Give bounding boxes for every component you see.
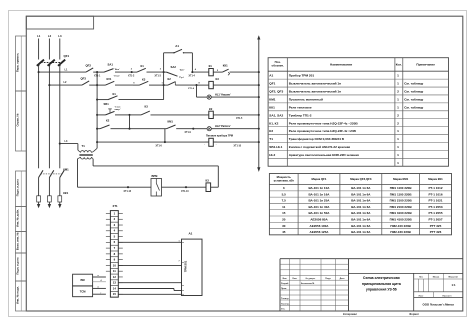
margin stamp box "Подп. и дата" <box>16 171 27 207</box>
svg-text:ХТ1-9: ХТ1-9 <box>185 132 192 134</box>
svg-text:А1: А1 <box>175 44 179 48</box>
relay contact K1 (self-hold) <box>97 99 108 101</box>
relay contact K2 (NC, row2) <box>164 84 168 86</box>
svg-text:2: 2 <box>397 90 399 94</box>
contactor KM1 main contacts <box>39 170 43 177</box>
svg-text:К3: К3 <box>216 77 220 81</box>
svg-text:1: 1 <box>397 145 399 149</box>
wire T1 primary right to rail <box>91 151 93 154</box>
svg-text:БРМ: БРМ <box>152 174 159 178</box>
svg-text:SA1: SA1 <box>108 62 114 66</box>
wire link row5-row6 <box>164 129 166 142</box>
svg-text:Пускатель магнитный: Пускатель магнитный <box>289 98 323 102</box>
wire row1 to bus <box>230 71 259 73</box>
svg-text:1: 1 <box>397 74 399 78</box>
svg-text:К3: К3 <box>206 178 210 182</box>
svg-text:Инв. № подл.: Инв. № подл. <box>15 286 19 304</box>
svg-text:15: 15 <box>282 211 286 215</box>
wire HL1 branch <box>196 85 198 97</box>
svg-text:Т.контр.: Т.контр. <box>281 298 289 300</box>
svg-text:'Руч': 'Руч' <box>179 77 184 79</box>
svg-text:РТ-1 2055: РТ-1 2055 <box>428 211 442 215</box>
margin stamp box "Взам. инв. №" <box>16 232 27 254</box>
node 3 / XT1-3 <box>163 71 165 73</box>
svg-text:КV1: КV1 <box>107 77 112 81</box>
svg-text:ВА-101 1п 6А: ВА-101 1п 6А <box>351 199 371 203</box>
wire XT1-14 to A1 <box>118 287 174 289</box>
svg-text:'Авт': 'Авт' <box>180 69 185 72</box>
wire K3 coil return <box>211 186 219 188</box>
parts list table <box>268 58 448 167</box>
svg-text:SA1, SA2: SA1, SA2 <box>269 113 283 117</box>
wire <box>97 71 104 73</box>
sensor wires <box>93 276 106 278</box>
node rail row6 / XT1-6 <box>96 141 98 143</box>
node L1 tap <box>38 71 40 73</box>
svg-text:1: 1 <box>397 129 399 133</box>
relay contact K3 (row2) <box>133 84 140 86</box>
svg-text:1: 1 <box>397 137 399 141</box>
svg-text:Формат: Формат <box>409 312 420 316</box>
svg-text:КК1: КК1 <box>223 63 228 67</box>
svg-text:К3: К3 <box>145 105 149 109</box>
svg-text:Кол.: Кол. <box>396 62 402 66</box>
svg-text:ПМ1 1100 220В: ПМ1 1100 220В <box>390 186 413 190</box>
wire row2 to bus <box>213 84 258 86</box>
svg-text:г: г <box>101 292 102 294</box>
breaker QF2 <box>86 68 93 72</box>
wire XT1-6 to A1 <box>118 241 181 243</box>
svg-text:РТ-1 1016: РТ-1 1016 <box>428 192 442 196</box>
svg-text:Н.контр.: Н.контр. <box>281 303 290 305</box>
svg-text:ПМ1 4100 220В: ПМ1 4100 220В <box>390 218 413 222</box>
signal lamp HL2 <box>193 128 207 130</box>
svg-text:ТСМ: ТСМ <box>80 289 87 293</box>
svg-text:К2: К2 <box>209 107 213 111</box>
svg-text:ВА-101 1п 10А: ВА-101 1п 10А <box>309 186 331 190</box>
svg-text:Листов 1: Листов 1 <box>442 295 452 297</box>
svg-text:Выключатель автоматический 1п: Выключатель автоматический 1п <box>289 82 341 86</box>
margin stamp box "Перв. примен." <box>16 36 27 91</box>
margin stamp box "Инв. № подл." <box>16 281 27 311</box>
control rail wire (QF2/QF3 feed) <box>96 72 98 148</box>
svg-text:Подп.: Подп. <box>325 278 331 280</box>
svg-text:ПМ1 2100 220В: ПМ1 2100 220В <box>390 199 413 203</box>
wire <box>130 128 167 130</box>
svg-text:ПМ2-160 220В: ПМ2-160 220В <box>390 230 411 234</box>
svg-text:7,5: 7,5 <box>282 199 287 203</box>
svg-text:ХТ1-10: ХТ1-10 <box>234 145 242 147</box>
thermal relay KK1 heater elements <box>37 196 41 202</box>
svg-text:ХТ1-5: ХТ1-5 <box>236 118 243 120</box>
svg-text:КМ1: КМ1 <box>168 119 174 123</box>
title block <box>280 258 463 260</box>
svg-text:15: 15 <box>113 292 117 296</box>
svg-text:20: 20 <box>282 218 286 222</box>
svg-text:ВА-101 1п 16А: ВА-101 1п 16А <box>309 192 331 196</box>
control bus N <box>258 38 260 168</box>
wire row6 <box>97 141 209 143</box>
svg-text:Лист: Лист <box>292 278 297 280</box>
temperature sensor TCM <box>73 286 93 297</box>
svg-text:Копировал: Копировал <box>343 312 357 316</box>
svg-text:SA2: SA2 <box>171 65 177 69</box>
svg-text:АЕ2056 80А: АЕ2056 80А <box>310 218 328 222</box>
node HL1 branch / XT1 mark <box>195 84 197 86</box>
svg-text:РТ-1 1021: РТ-1 1021 <box>428 199 442 203</box>
svg-text:QF2, QF3: QF2, QF3 <box>269 90 283 94</box>
svg-text:ТРМ-201: ТРМ-201 <box>184 260 188 272</box>
svg-text:Прибор ТРМ 201: Прибор ТРМ 201 <box>289 74 315 78</box>
svg-text:ООО 'Классик' г.Минск: ООО 'Классик' г.Минск <box>423 302 455 306</box>
wire HL1 to bus <box>211 96 258 98</box>
svg-text:L1: L1 <box>37 34 41 38</box>
node XT1-13 <box>185 186 187 188</box>
wire T1 primary left <box>60 143 78 145</box>
svg-text:Марка КК1: Марка КК1 <box>428 177 443 181</box>
circuit breaker QF1 <box>37 60 44 66</box>
svg-text:11: 11 <box>113 269 116 273</box>
node L2 tap <box>48 84 50 86</box>
svg-text:См. таблицу: См. таблицу <box>404 105 423 109</box>
node rail row5 <box>96 128 98 130</box>
temperature sensor BM <box>73 274 93 286</box>
svg-text:Подп. и дата: Подп. и дата <box>15 257 19 274</box>
wire XT1-13 to A1 <box>118 282 181 284</box>
svg-text:установки, кВт: установки, кВт <box>274 178 295 182</box>
svg-text:ВА-101 1п 6А: ВА-101 1п 6А <box>351 211 371 215</box>
svg-text:К1, К2: К1, К2 <box>269 121 278 125</box>
svg-text:ВА-101 1п 40А: ВА-101 1п 40А <box>309 205 331 209</box>
svg-text:РТТ 326: РТТ 326 <box>430 230 442 234</box>
svg-text:ХТ1-6: ХТ1-6 <box>156 145 163 147</box>
svg-text:Примечание: Примечание <box>416 62 435 66</box>
svg-text:См. таблицу: См. таблицу <box>404 90 423 94</box>
node HL2 / XT1-9 <box>192 128 194 130</box>
svg-text:К1: К1 <box>141 64 145 68</box>
svg-text:ХТ1: ХТ1 <box>113 204 119 208</box>
svg-text:ПМ1 1100 220В: ПМ1 1100 220В <box>390 192 413 196</box>
svg-text:Марка QF2,QF3: Марка QF2,QF3 <box>350 177 372 181</box>
svg-text:Марка QF1: Марка QF1 <box>312 177 327 181</box>
svg-text:К2: К2 <box>106 119 110 123</box>
svg-text:11: 11 <box>282 205 286 209</box>
svg-text:HL2 'Работа': HL2 'Работа' <box>215 124 231 128</box>
svg-text:АЕ2056 100А: АЕ2056 100А <box>310 224 330 228</box>
svg-text:12: 12 <box>113 275 117 279</box>
svg-text:управления УЗ-56: управления УЗ-56 <box>366 288 397 292</box>
wire row2 left <box>49 84 82 86</box>
relay contact KV1 <box>97 84 105 86</box>
svg-text:Реле тепловое: Реле тепловое <box>289 105 312 109</box>
svg-text:Утв.: Утв. <box>281 309 286 311</box>
svg-text:Инв. № дубл.: Инв. № дубл. <box>15 209 19 227</box>
svg-text:L3: L3 <box>58 34 62 38</box>
relay contact K2 (row5) <box>97 128 100 130</box>
svg-text:Разраб.: Разраб. <box>281 282 289 285</box>
svg-text:обознач.: обознач. <box>271 64 284 68</box>
svg-text:КК1: КК1 <box>269 105 275 109</box>
svg-text:'Откл': 'Откл' <box>114 75 121 77</box>
svg-text:ПМ2-100 220В: ПМ2-100 220В <box>390 224 411 228</box>
node 1 / XT1-1 <box>96 71 98 73</box>
svg-text:Изм: Изм <box>283 278 287 280</box>
svg-text:Взам. инв. №: Взам. инв. № <box>15 232 19 250</box>
node 4 / XT1-4 <box>191 71 193 73</box>
svg-text:РТ-1 2057: РТ-1 2057 <box>428 218 442 222</box>
svg-text:К3: К3 <box>269 129 273 133</box>
svg-text:Пров.: Пров. <box>281 288 287 290</box>
contactor KM1 aux contact <box>167 125 176 129</box>
wire row4 to bus / XT1-5 <box>213 114 258 116</box>
relay coil K2 <box>209 111 214 118</box>
margin stamp box "Справ. №" <box>16 91 27 151</box>
svg-text:14: 14 <box>113 286 117 290</box>
svg-text:Реле промежуточное типа HJQ-22: Реле промежуточное типа HJQ-22F-4z =24В <box>289 129 357 133</box>
svg-text:ВА-101 1п 50А: ВА-101 1п 50А <box>309 211 331 215</box>
svg-text:Марка КМ1: Марка КМ1 <box>393 177 409 181</box>
relay coil KV1 <box>197 84 209 86</box>
svg-text:1: 1 <box>397 161 399 165</box>
svg-text:КК1: КК1 <box>63 191 68 195</box>
svg-text:КМ1: КМ1 <box>269 98 276 102</box>
wire XT1-15 to A1 <box>118 293 181 295</box>
node 2 / XT1-2 <box>131 71 133 73</box>
svg-text:ХТ1-4: ХТ1-4 <box>188 87 195 90</box>
svg-text:К3: К3 <box>142 77 146 81</box>
svg-text:принципиальная щита: принципиальная щита <box>362 282 401 286</box>
wire T1 secondary left loop <box>78 157 81 159</box>
svg-text:АЕ2056 125А: АЕ2056 125А <box>310 230 330 234</box>
svg-text:КМ1: КМ1 <box>63 167 69 171</box>
svg-text:Дата: Дата <box>340 278 346 280</box>
wire row1 left <box>39 71 86 73</box>
svg-text:К1: К1 <box>113 92 117 96</box>
svg-text:QF2: QF2 <box>86 64 92 68</box>
relay contact K1 (row1) <box>132 71 137 73</box>
svg-text:См. таблицу: См. таблицу <box>404 82 423 86</box>
svg-text:авар.': авар.' <box>115 109 122 111</box>
node rail top row2 <box>96 84 98 86</box>
svg-text:РТ-1 2053: РТ-1 2053 <box>428 205 442 209</box>
svg-text:Т1: Т1 <box>82 144 86 148</box>
svg-text:2: 2 <box>397 121 399 125</box>
svg-text:Тумблер ТП1-2: Тумблер ТП1-2 <box>289 113 312 117</box>
svg-text:QF1: QF1 <box>64 54 70 58</box>
node XT1-12 <box>127 186 129 188</box>
terminal stub wires <box>118 212 123 214</box>
wire selfhold up <box>163 72 165 100</box>
svg-text:Справ. №: Справ. № <box>15 114 19 127</box>
svg-text:Масса: Масса <box>433 276 440 278</box>
svg-text:1: 1 <box>397 153 399 157</box>
svg-text:К1: К1 <box>209 64 213 68</box>
svg-text:ВА-101 1п 6А: ВА-101 1п 6А <box>351 230 371 234</box>
wire link row4-row5 <box>129 115 131 129</box>
relay coil K3 <box>206 183 211 192</box>
svg-text:30: 30 <box>282 224 286 228</box>
svg-text:Наименование: Наименование <box>330 62 352 66</box>
svg-text:1: 1 <box>397 82 399 86</box>
svg-text:ХТ1-13: ХТ1-13 <box>181 191 189 193</box>
margin stamp box "Инв. № дубл." <box>16 207 27 232</box>
svg-text:SB1: SB1 <box>104 102 110 106</box>
node L3 tap for T1 <box>59 143 61 145</box>
svg-text:ПМ1 3100 220В: ПМ1 3100 220В <box>390 211 413 215</box>
svg-text:5,5: 5,5 <box>282 192 287 196</box>
node rail row3 <box>96 99 98 101</box>
svg-text:45: 45 <box>282 230 286 234</box>
svg-text:ХТ1-12: ХТ1-12 <box>124 191 132 193</box>
svg-text:РТ-1 1012: РТ-1 1012 <box>428 186 442 190</box>
svg-text:Лит.: Лит. <box>419 276 424 278</box>
svg-text:10: 10 <box>113 263 117 267</box>
svg-text:А1: А1 <box>269 74 273 78</box>
svg-text:1: 1 <box>397 98 399 102</box>
svg-text:HL1 'Нагрев': HL1 'Нагрев' <box>215 93 231 97</box>
svg-text:См. таблицу: См. таблицу <box>404 98 423 102</box>
wire <box>162 186 207 188</box>
wire row6 to bus / XT1-10 <box>213 141 258 143</box>
breaker QF3 <box>82 81 89 85</box>
svg-text:HL2: HL2 <box>269 153 275 157</box>
wire HL2 to bus <box>211 128 258 130</box>
svg-text:ХТ1-3: ХТ1-3 <box>155 76 162 78</box>
svg-text:13: 13 <box>113 281 117 285</box>
svg-text:Подп. и дата: Подп. и дата <box>15 179 19 196</box>
svg-text:1: 1 <box>397 105 399 109</box>
relay contact K3 (row4) <box>130 114 142 116</box>
svg-text:ВА-101 1п 6А: ВА-101 1п 6А <box>351 186 371 190</box>
node row4 <box>128 114 130 116</box>
svg-text:Трансформатор ОСМ 0,063 380/24: Трансформатор ОСМ 0,063 380/24 В <box>289 137 345 141</box>
svg-text:Арматура светосигнальная ENR-2: Арматура светосигнальная ENR-22D зеленая <box>289 153 359 157</box>
signal lamp HL1 <box>207 95 211 99</box>
svg-text:ВА-101 1п 6А: ВА-101 1п 6А <box>351 192 371 196</box>
svg-text:'Вкл': 'Вкл' <box>115 69 121 71</box>
svg-text:Лист: Лист <box>419 295 424 297</box>
svg-text:Реле промежуточное типа HJQ-22: Реле промежуточное типа HJQ-22F-4z ~220В <box>289 121 359 125</box>
svg-text:Питание прибора ТРМ: Питание прибора ТРМ <box>206 135 233 138</box>
node row2/selfhold <box>163 84 165 86</box>
relay coil K1 <box>192 71 208 73</box>
svg-text:L2: L2 <box>48 34 52 38</box>
svg-text:ХТ1-4: ХТ1-4 <box>189 75 196 78</box>
svg-text:А1: А1 <box>189 232 193 236</box>
svg-text:1:1: 1:1 <box>452 283 456 287</box>
svg-text:ВА-101 1п 6А: ВА-101 1п 6А <box>351 205 371 209</box>
svg-text:ВА-101 1п 6А: ВА-101 1п 6А <box>351 224 371 228</box>
svg-text:SB1-HL1: SB1-HL1 <box>269 145 282 149</box>
wire / node 5 <box>213 71 222 73</box>
svg-text:Алексеева М.: Алексеева М. <box>301 282 315 285</box>
svg-text:Перв. примен.: Перв. примен. <box>15 53 19 72</box>
svg-text:Схема электрическая: Схема электрическая <box>363 276 400 280</box>
node rail row4 <box>96 114 98 116</box>
svg-text:QF3: QF3 <box>81 76 87 80</box>
svg-text:ПМ1 2100 220В: ПМ1 2100 220В <box>390 205 413 209</box>
top-left designation box <box>26 16 93 29</box>
svg-text:Т1: Т1 <box>269 137 273 141</box>
svg-text:Масштаб: Масштаб <box>448 275 458 278</box>
breaker/starter selection table <box>269 174 451 235</box>
svg-text:2: 2 <box>397 113 399 117</box>
wire XT1-10 to A1 <box>118 264 181 266</box>
margin stamp box "Подп. и дата" <box>16 253 27 281</box>
svg-text:ВА-101 1п 6А: ВА-101 1п 6А <box>351 218 371 222</box>
svg-text:РТТ 325: РТТ 325 <box>430 224 442 228</box>
svg-text:№ докум.: № докум. <box>306 277 316 280</box>
svg-text:QF1: QF1 <box>269 82 275 86</box>
wire T1 secondary right loop <box>91 157 93 159</box>
svg-text:Кнопка с подсветкой ANLFS-22 к: Кнопка с подсветкой ANLFS-22 красная <box>289 145 351 149</box>
svg-text:ВА-101 1п 25А: ВА-101 1п 25А <box>309 199 331 203</box>
svg-text:Выключатель автоматический 1п: Выключатель автоматический 1п <box>289 90 341 94</box>
svg-text:К2: К2 <box>168 77 172 81</box>
svg-text:ХТ1-2: ХТ1-2 <box>128 76 135 78</box>
